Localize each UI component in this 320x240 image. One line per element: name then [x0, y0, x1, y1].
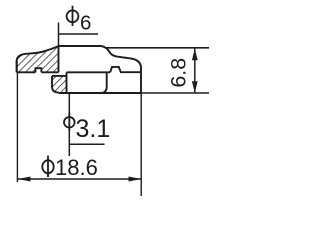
phi symbol of phi18.6: [42, 160, 53, 173]
6.8 top extension line: [106, 47, 209, 49]
phi symbol of phi3.1: [64, 117, 75, 128]
6.8 top arrow: [192, 49, 198, 61]
svg-text:6.8: 6.8: [166, 58, 190, 88]
labels: [42, 6, 78, 177]
flange left hump outline: [17, 46, 59, 72]
hatch flange left half: [17, 46, 59, 72]
hatch wall block left: [52, 76, 67, 93]
flange right edge: [140, 66, 142, 93]
left underside with groove: [17, 68, 59, 72]
right dome slope and shoulder: [101, 46, 141, 67]
phi3.1 extension line: [68, 94, 70, 157]
wall block outline: [52, 72, 67, 92]
phi18.6 dimension line: [18, 178, 141, 180]
18.6 right arrow: [129, 177, 142, 182]
phi18.6 right extension line: [140, 94, 142, 197]
18.6 left arrow: [18, 177, 31, 182]
phi6 dimension shelf: [59, 33, 99, 35]
6.8 bottom arrow: [192, 81, 198, 93]
phi3.1 shelf: [69, 143, 104, 145]
part outline: dome flat top: [59, 45, 102, 47]
phi6 hole wall / extension line: [58, 23, 60, 47]
base right edge: [100, 72, 107, 93]
arrowheads: [18, 49, 198, 182]
phi symbol of phi6: [67, 10, 79, 22]
bottom face + 6.8 bottom extension line: [59, 92, 142, 94]
svg-text:6: 6: [80, 11, 91, 34]
shoulder line and right underside with ridge bump: [67, 67, 142, 72]
svg-text:3.1: 3.1: [76, 115, 111, 143]
svg-text:18.6: 18.6: [55, 155, 98, 180]
6.8 dimension line: [194, 48, 196, 93]
phi18.6 left extension line: [16, 61, 18, 73]
